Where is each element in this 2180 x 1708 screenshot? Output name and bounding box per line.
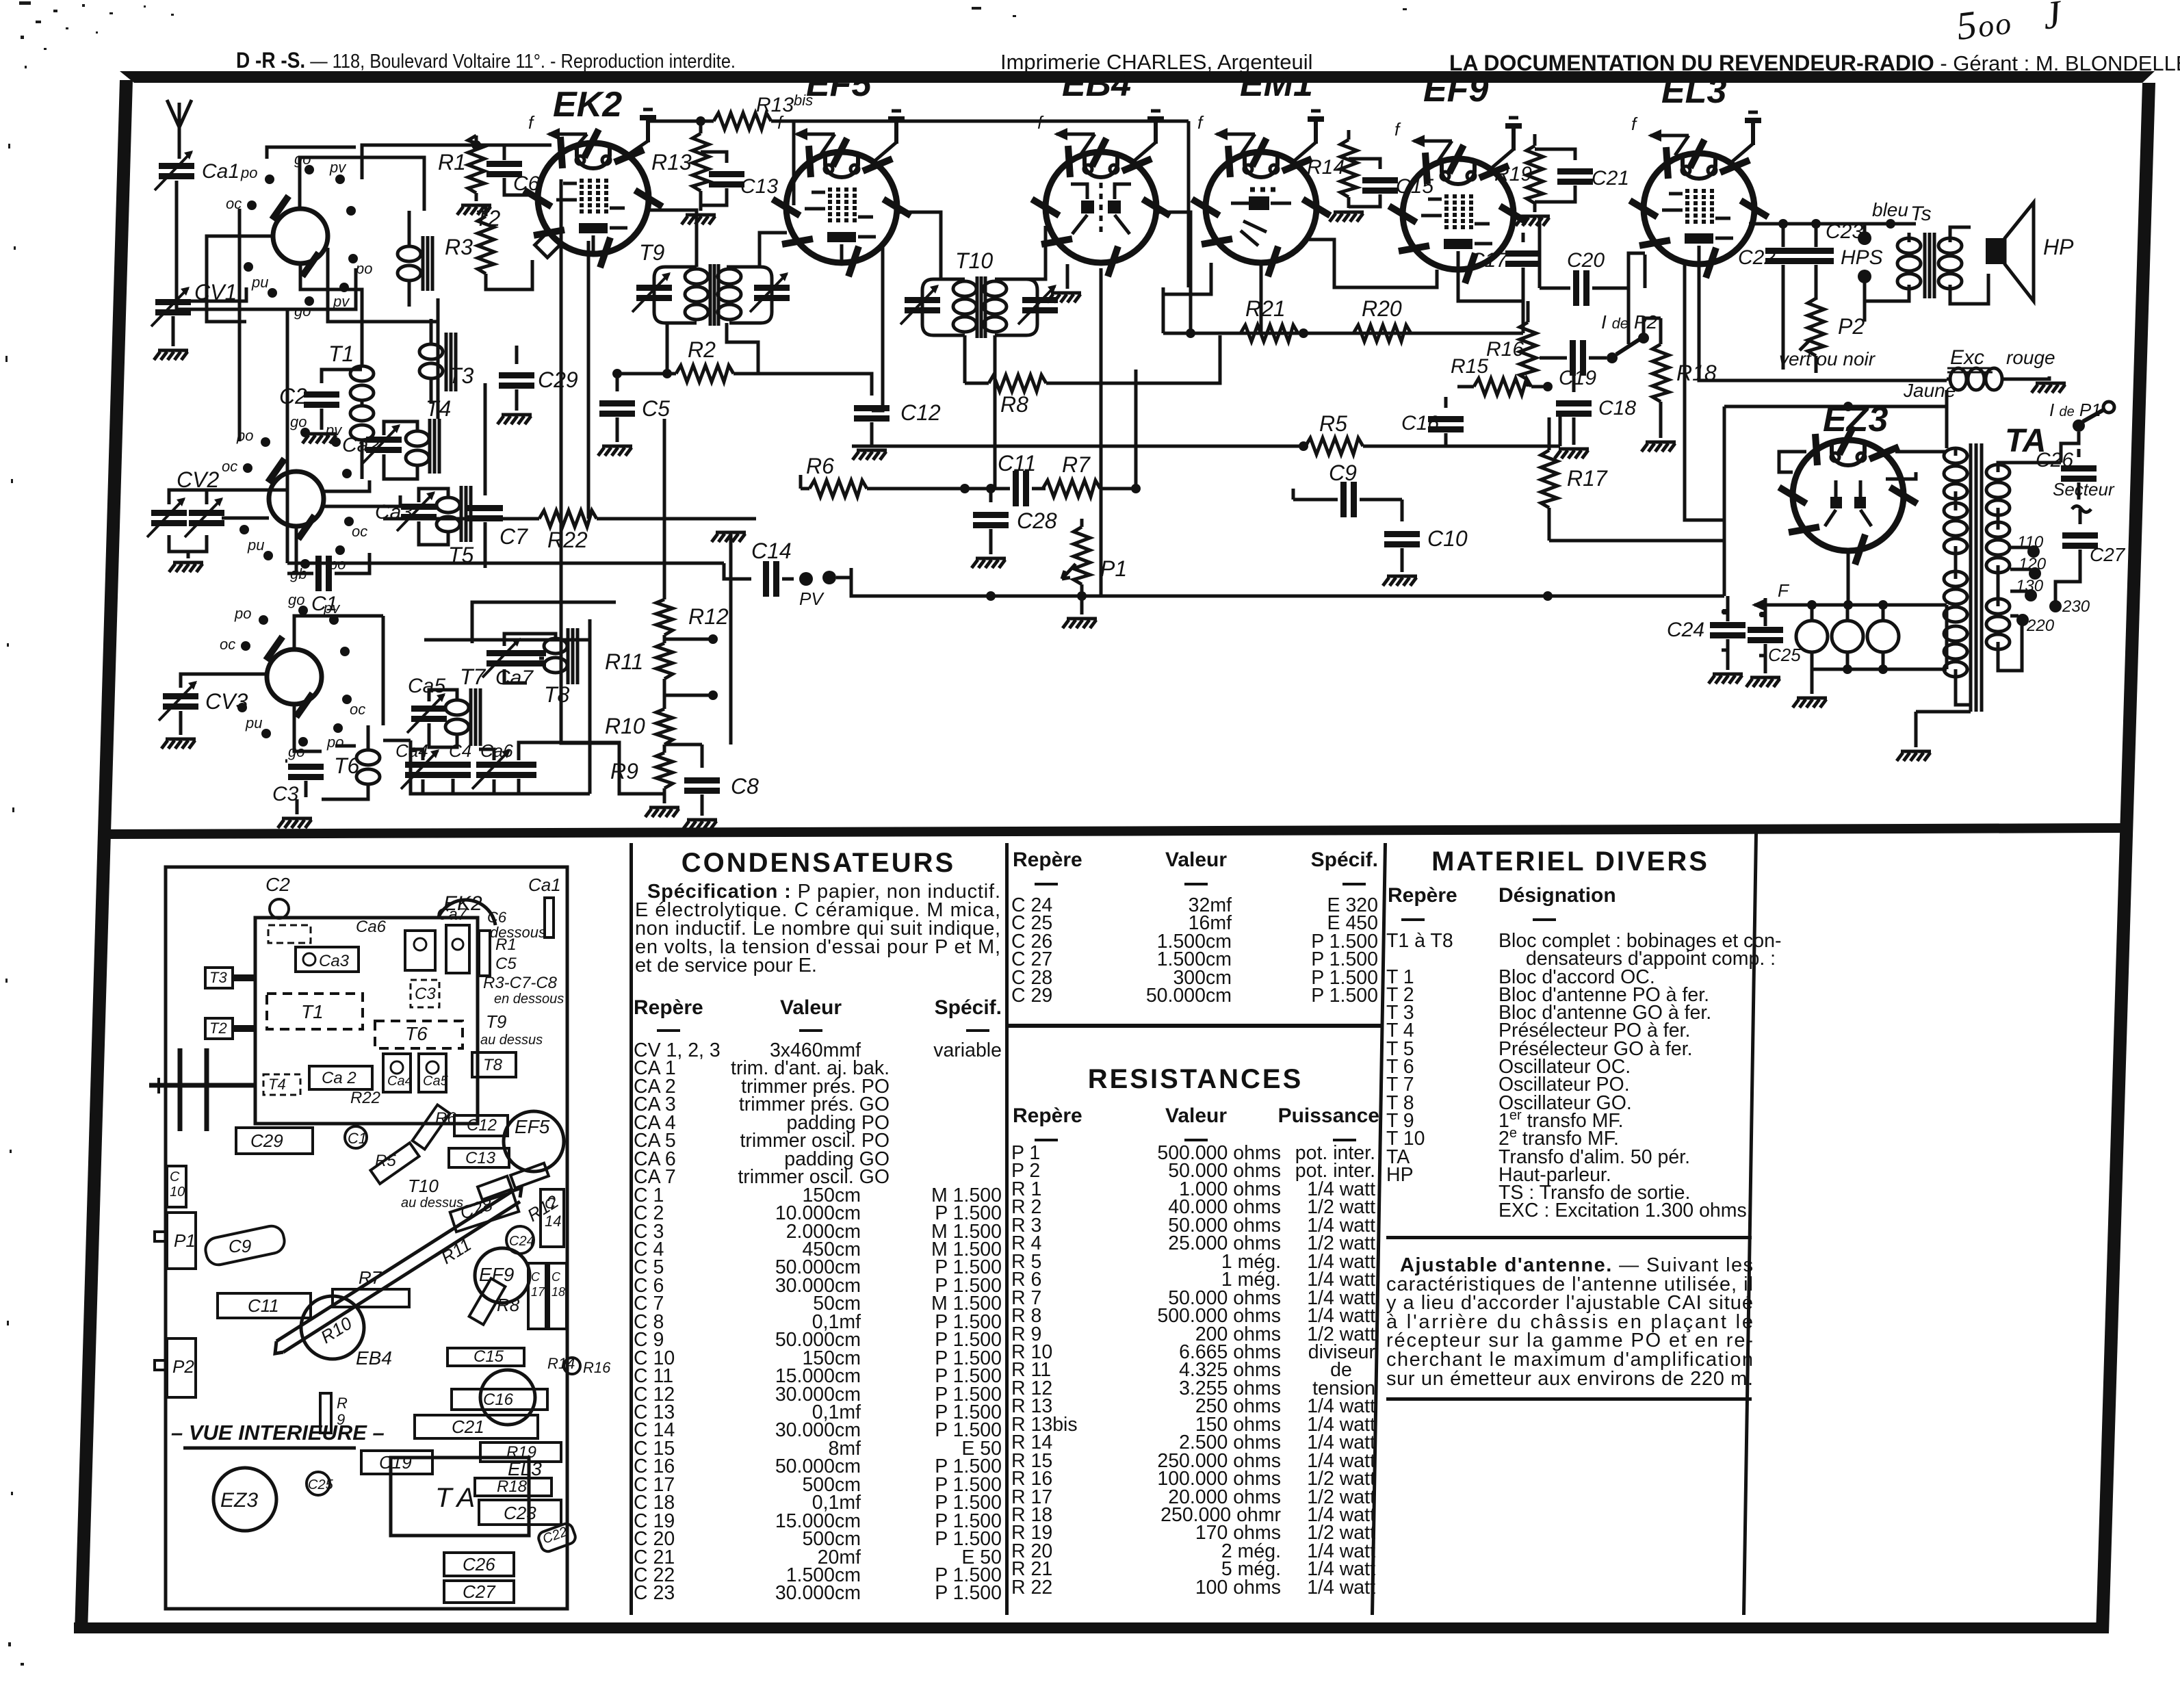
svg-text:R7: R7 — [1062, 452, 1091, 477]
svg-text:R11: R11 — [605, 649, 643, 674]
resistor R6 — [801, 475, 1010, 497]
svg-text:1/4 watt: 1/4 watt — [1307, 1577, 1375, 1599]
chassis box T3 — [205, 968, 255, 988]
resistor R1 — [468, 135, 484, 201]
chassis small R13 R14 — [478, 1163, 549, 1200]
wire S3 upper loop — [294, 616, 383, 751]
rule below ajustable — [1386, 1397, 1752, 1401]
grid bus wire EK2 — [452, 144, 552, 147]
page frame: bottom border bar — [74, 1622, 2108, 1633]
svg-text:C2: C2 — [279, 384, 307, 409]
svg-text:Ca 2: Ca 2 — [322, 1069, 356, 1087]
svg-text:P2: P2 — [1838, 314, 1865, 339]
svg-text:et de service pour E.: et de service pour E. — [635, 955, 817, 976]
svg-text:au dessus: au dessus — [480, 1033, 543, 1048]
svg-text:R22: R22 — [350, 1089, 380, 1107]
svg-text:CV3: CV3 — [205, 689, 248, 714]
capacitor Ca5 — [407, 693, 447, 733]
title VUE INTERIEURE — [171, 1421, 385, 1448]
svg-text:pv: pv — [323, 599, 341, 617]
filament arrow EF5 — [794, 128, 835, 154]
svg-text:C24: C24 — [509, 1234, 534, 1249]
capacitor C16 — [1428, 397, 1464, 446]
band switch S2 labels — [222, 413, 367, 582]
chassis node C25 — [307, 1472, 330, 1495]
tube EF9 — [1389, 145, 1527, 283]
top cap EK2 — [624, 109, 656, 157]
svg-text:EZ3: EZ3 — [220, 1489, 258, 1512]
chassis view outer box — [166, 867, 567, 1609]
top cap EL3 — [1729, 112, 1761, 164]
svg-text:C14: C14 — [751, 539, 792, 563]
table column rule 3 — [1371, 843, 1387, 1615]
chassis tube EL3 — [480, 1370, 535, 1425]
tube EM1 — [1192, 138, 1330, 276]
svg-text:230: 230 — [2062, 597, 2090, 616]
svg-text:C22: C22 — [1738, 246, 1776, 269]
capacitor C24 — [1710, 596, 1746, 670]
wire left trunk — [238, 209, 242, 441]
svg-text:Repère: Repère — [1013, 849, 1082, 871]
lamp L1 — [1796, 605, 1828, 652]
svg-text:EF9: EF9 — [1423, 70, 1488, 109]
svg-text:TA: TA — [435, 1483, 482, 1513]
excitation coil EXC — [1947, 368, 2049, 390]
svg-text:Ca2: Ca2 — [342, 434, 380, 456]
chassis box C12 — [454, 1115, 508, 1136]
tube EL3 — [1630, 140, 1768, 278]
chassis resistor R9 — [320, 1393, 331, 1433]
transformer T1 — [350, 342, 374, 479]
svg-text:en dessous: en dessous — [494, 992, 564, 1007]
resistor R2 — [612, 365, 872, 396]
band switch S1 contact dots — [244, 165, 358, 306]
label Exc — [1947, 346, 1993, 372]
wire switch to grid line — [362, 145, 452, 179]
wire filament line lamps — [1793, 551, 1947, 669]
wire cathode line EL3 — [1699, 266, 1947, 380]
svg-text:C11: C11 — [998, 451, 1036, 476]
chassis box T2 — [205, 1018, 255, 1039]
resistor R9 — [656, 745, 673, 799]
svg-text:EL3: EL3 — [508, 1458, 542, 1479]
node HPS — [1858, 224, 1871, 322]
table RESISTANCES header — [1013, 1104, 1379, 1127]
wire CV1 to switch — [189, 287, 246, 301]
table RESISTANCES rows — [1011, 1142, 1375, 1599]
capacitor C9 — [1293, 482, 1402, 517]
svg-text:10: 10 — [170, 1185, 185, 1200]
svg-text:C19: C19 — [379, 1452, 412, 1473]
wire jaune line — [1724, 390, 1947, 596]
wire lamp bottoms — [1812, 652, 1947, 674]
resistor R18 — [1644, 318, 1669, 438]
wire EL3 plate line — [1749, 219, 1916, 229]
ground under C24 — [1709, 674, 1743, 684]
svg-text:C7: C7 — [499, 524, 528, 549]
filament arrow EB4 — [1054, 128, 1095, 154]
svg-text:C27: C27 — [463, 1581, 496, 1602]
svg-text:EXC : Excitation 1.300 ohms.: EXC : Excitation 1.300 ohms. — [1498, 1200, 1752, 1221]
svg-text:C18: C18 — [1598, 397, 1636, 419]
svg-text:f: f — [528, 112, 535, 133]
capacitor C15 — [1349, 159, 1398, 207]
svg-text:f: f — [1631, 114, 1638, 134]
chassis box R18 — [475, 1478, 552, 1496]
scan noise speckles — [5, 1, 1407, 1666]
svg-text:Repère: Repère — [1388, 884, 1457, 907]
resistor R11 — [656, 635, 673, 679]
chassis label C17 18 — [531, 1270, 565, 1299]
svg-text:R2: R2 — [688, 337, 716, 362]
transformer T10 — [900, 226, 1058, 489]
tube EB4 — [1032, 138, 1170, 276]
svg-text:f: f — [1197, 112, 1204, 133]
svg-text:oc: oc — [352, 523, 367, 540]
svg-text:R12: R12 — [688, 604, 729, 629]
lamp L2 — [1832, 605, 1863, 652]
svg-text:T9: T9 — [486, 1011, 506, 1032]
tube EK2 — [524, 129, 662, 268]
svg-text:R20: R20 — [1362, 296, 1402, 321]
svg-text:T2: T2 — [209, 1020, 227, 1037]
svg-text:HP: HP — [1386, 1164, 1414, 1186]
chassis box C16 — [452, 1389, 547, 1410]
ground under C8 — [683, 820, 717, 829]
svg-text:Ca5: Ca5 — [408, 675, 445, 697]
wire R7 vertical — [1134, 370, 1138, 489]
capacitor C19 — [1540, 340, 1607, 376]
capacitor C3 — [285, 761, 324, 797]
wire EZ3 plates to TA — [1779, 452, 1947, 479]
chassis resistor R6 — [413, 1104, 450, 1149]
capacitor C21 — [1535, 149, 1593, 202]
wire oscillator block bottom — [411, 740, 590, 794]
wire EM1 grid link — [1163, 263, 1211, 294]
svg-text:30.000cm: 30.000cm — [775, 1582, 861, 1604]
svg-text:po: po — [355, 260, 372, 277]
wire antenna to band switch — [177, 181, 356, 309]
chassis tube EF5 — [504, 1111, 564, 1172]
svg-text:C16: C16 — [1401, 412, 1439, 435]
svg-text:Ca1: Ca1 — [202, 160, 239, 183]
svg-text:T9: T9 — [639, 240, 665, 265]
filament arrow EZ3 — [1752, 599, 1793, 611]
wire left AVC vertical — [286, 309, 289, 563]
chassis trimmer pair Ca4 Ca5 — [383, 1054, 446, 1092]
svg-text:Valeur: Valeur — [780, 996, 842, 1019]
top cap EF9 — [1490, 118, 1522, 170]
svg-text:120: 120 — [2019, 555, 2047, 573]
svg-text:T3: T3 — [448, 363, 474, 388]
resistor R3 — [478, 204, 532, 289]
svg-text:R6: R6 — [806, 454, 834, 478]
svg-text:C16: C16 — [483, 1390, 514, 1409]
resistor R5 — [852, 411, 1560, 454]
svg-text:Secteur: Secteur — [2053, 479, 2115, 500]
transformer T2 — [398, 211, 432, 307]
svg-text:R5: R5 — [375, 1152, 396, 1170]
resistor R13bis — [650, 113, 1189, 287]
svg-text:Valeur: Valeur — [1165, 849, 1227, 871]
transformer T4 — [384, 419, 439, 479]
band switch S2 contact dots — [239, 428, 354, 569]
ground under R13 — [682, 215, 716, 224]
capacitor C2 — [304, 370, 362, 430]
svg-text:po: po — [234, 605, 251, 622]
ground under CV2 — [169, 552, 203, 572]
svg-text:C9: C9 — [1329, 461, 1357, 485]
ground under C18 — [1555, 449, 1589, 458]
svg-text:HP: HP — [2043, 235, 2074, 259]
chassis resistor R5 — [370, 1143, 419, 1184]
svg-text:LA DOCUMENTATION DU REVENDE: LA DOCUMENTATION DU REVENDEUR-RADIO - Gé… — [1449, 51, 2180, 75]
wire EF5 grid drop — [792, 121, 796, 205]
chassis label R14 R16 — [547, 1355, 611, 1376]
svg-text:R3: R3 — [445, 235, 473, 259]
svg-text:R3-C7-C8: R3-C7-C8 — [483, 974, 558, 992]
svg-text:go: go — [294, 302, 311, 320]
capacitor C18 — [1556, 373, 1592, 445]
svg-text:bleu: bleu — [1872, 199, 1908, 220]
wire AVC bus upper — [287, 563, 751, 579]
band switch S1 labels — [226, 151, 372, 320]
svg-text:17: 17 — [531, 1285, 545, 1299]
svg-text:100 ohms: 100 ohms — [1195, 1577, 1281, 1599]
svg-text:R17: R17 — [1567, 466, 1608, 491]
wire centre trunk — [712, 532, 746, 745]
wire grid return — [267, 147, 356, 159]
wire EF9 cathode — [1458, 270, 1528, 322]
svg-text:pv: pv — [333, 293, 350, 310]
svg-text:C6: C6 — [513, 172, 540, 195]
svg-text:C25: C25 — [308, 1477, 334, 1492]
rule above ajustable — [1386, 1236, 1752, 1239]
svg-text:Ca4: Ca4 — [387, 1074, 413, 1089]
wire R chain taps — [664, 634, 718, 700]
svg-text:C19: C19 — [1559, 367, 1596, 389]
chassis label R9 — [337, 1395, 348, 1428]
capacitor Ca3 — [397, 491, 437, 531]
filament arrow EF9 — [1411, 135, 1452, 161]
band switch S2 — [265, 457, 324, 541]
table C24 rows — [1011, 894, 1378, 1007]
wire S2 bottom to C1 — [295, 526, 298, 573]
capacitor C6 — [486, 145, 539, 195]
svg-text:C 23: C 23 — [634, 1582, 675, 1604]
svg-text:C20: C20 — [1567, 249, 1605, 272]
top cap EM1 — [1292, 111, 1324, 163]
svg-text:R1: R1 — [495, 935, 517, 954]
svg-text:18: 18 — [552, 1285, 565, 1299]
ground under CV1 — [154, 316, 188, 360]
ground under C12 — [853, 450, 887, 460]
svg-text:T4: T4 — [268, 1076, 286, 1093]
svg-text:variable: variable — [933, 1039, 1002, 1061]
capacitor C12 — [854, 405, 890, 446]
chassis box Ca3 — [296, 947, 359, 972]
transformer TA secondary coils — [1986, 463, 2022, 671]
svg-text:T1: T1 — [301, 1001, 324, 1022]
wire CV2 box — [169, 490, 287, 552]
chassis box C29 — [236, 1128, 313, 1154]
svg-text:R8: R8 — [1000, 392, 1028, 417]
chassis box C23 — [479, 1500, 561, 1525]
svg-text:oc: oc — [350, 701, 365, 718]
svg-text:C23: C23 — [1826, 220, 1863, 243]
chassis box C21 — [415, 1415, 538, 1438]
svg-text:R13bis: R13bis — [756, 92, 813, 116]
svg-text:go: go — [288, 591, 304, 608]
capacitor C26 — [2061, 449, 2097, 500]
wire S3 link — [382, 616, 385, 725]
table MATERIEL rows — [1386, 930, 1782, 1221]
svg-text:I de P2: I de P2 — [1601, 311, 1658, 333]
wire switch to T1 — [300, 263, 362, 342]
wire EF5 screen drop — [872, 246, 883, 411]
wire oscillator to R9 bus — [519, 742, 664, 794]
svg-text:go: go — [290, 413, 307, 430]
chassis box C15 — [447, 1348, 524, 1366]
table column rule 2 — [1005, 843, 1009, 1615]
potentiometer P2 — [1800, 298, 1824, 373]
transformer T9 — [632, 233, 790, 378]
transformer T5 — [419, 486, 471, 545]
svg-text:EF9: EF9 — [479, 1264, 514, 1285]
ground under R9 — [645, 798, 679, 817]
svg-text:R: R — [337, 1395, 348, 1412]
svg-text:Ca5: Ca5 — [423, 1074, 449, 1089]
capacitor C28 — [973, 484, 1009, 554]
ground under C10 — [1383, 576, 1417, 586]
svg-text:C5: C5 — [495, 955, 517, 973]
wire S2 to T4 T5 — [324, 480, 400, 506]
svg-text:PV: PV — [799, 588, 825, 609]
wire CV3 to S3 — [181, 674, 267, 688]
capacitor C13 — [701, 152, 744, 205]
capacitor CV2b — [185, 497, 224, 537]
capacitor C14 — [763, 561, 794, 597]
chassis coil block box — [255, 918, 478, 1124]
transformer T7 — [429, 688, 480, 747]
chassis box C10 — [167, 1166, 186, 1207]
svg-text:C26: C26 — [463, 1554, 495, 1575]
wire EL3 screen vertical — [1685, 260, 1724, 520]
svg-text:sur un émetteur aux environs d: sur un émetteur aux environs de 220 m. — [1386, 1368, 1753, 1390]
svg-text:po: po — [326, 734, 343, 751]
svg-text:RESISTANCES: RESISTANCES — [1088, 1064, 1303, 1094]
transformer T3 — [419, 319, 456, 404]
chassis circle R16 — [564, 1358, 580, 1374]
svg-text:EF5: EF5 — [806, 64, 872, 104]
transformer TA core — [1971, 443, 1982, 712]
chassis pot P1 — [155, 1213, 196, 1269]
svg-text:Exc: Exc — [1950, 346, 1984, 369]
svg-text:C10: C10 — [1427, 526, 1468, 551]
capacitor C8 — [664, 745, 720, 816]
band switch S3 contact dots — [237, 606, 352, 747]
svg-text:C2: C2 — [265, 874, 290, 895]
tube EZ3 — [1779, 426, 1917, 565]
svg-text:T8: T8 — [544, 682, 570, 707]
svg-text:C3: C3 — [272, 783, 299, 805]
capacitor CV2a — [147, 497, 187, 537]
svg-text:Puissance: Puissance — [1278, 1104, 1379, 1127]
svg-text:R10: R10 — [317, 1312, 356, 1347]
svg-text:EZ3: EZ3 — [1823, 400, 1888, 439]
table CONDENSATEURS intro — [635, 881, 1000, 976]
wire EB4 plate right — [1101, 212, 1261, 596]
band switch S1 — [270, 194, 328, 279]
svg-text:R9: R9 — [610, 759, 638, 784]
chassis resistor R8 — [469, 1278, 506, 1324]
svg-text:T1: T1 — [328, 341, 354, 366]
label Secteur — [2053, 479, 2115, 513]
capacitor Ca1 — [155, 151, 194, 190]
svg-text:Ca6: Ca6 — [356, 918, 387, 936]
ground under lamps — [1793, 669, 1827, 708]
chassis pot P2 — [155, 1338, 196, 1397]
chassis tube EZ3 — [213, 1468, 276, 1531]
TA taps — [2010, 545, 2080, 626]
chassis box T6 dashed — [375, 1021, 463, 1048]
capacitor C27 — [2062, 509, 2098, 565]
svg-text:C: C — [531, 1270, 541, 1284]
ground under C29 — [497, 415, 532, 424]
svg-text:Ca1: Ca1 — [528, 875, 561, 895]
svg-text:Spécif.: Spécif. — [1311, 849, 1378, 871]
svg-text:pu: pu — [245, 714, 262, 732]
svg-text:T6: T6 — [405, 1023, 428, 1044]
svg-text:C22: C22 — [541, 1524, 569, 1547]
svg-text:T8: T8 — [483, 1056, 503, 1074]
chassis tube EF9 — [475, 1248, 530, 1303]
capacitor C5 — [599, 374, 635, 442]
wire switch loops upper — [300, 157, 424, 211]
svg-text:C28: C28 — [1017, 508, 1057, 533]
svg-text:MATERIEL DIVERS: MATERIEL DIVERS — [1431, 846, 1709, 877]
page frame: left border bar — [75, 80, 133, 1633]
svg-text:C23: C23 — [504, 1503, 536, 1523]
svg-text:T1 à T8: T1 à T8 — [1386, 930, 1453, 952]
wire EF9 plate — [1514, 216, 1540, 270]
wire oscillator block top — [383, 602, 616, 794]
chassis box R19 — [480, 1442, 561, 1462]
svg-text:C24: C24 — [1667, 619, 1704, 641]
svg-text:pv: pv — [325, 422, 343, 439]
svg-text:R 22: R 22 — [1011, 1577, 1052, 1599]
wire EL3 grid coupling — [1628, 253, 1645, 288]
filament arrow EM1 — [1214, 128, 1255, 154]
svg-text:C27: C27 — [2090, 544, 2126, 565]
svg-text:I de P1: I de P1 — [2049, 400, 2101, 420]
wire R21 R20 bus — [1163, 287, 1523, 338]
wire switch lower loop — [328, 248, 438, 322]
svg-text:Valeur: Valeur — [1165, 1104, 1227, 1127]
svg-text:– VUE INTERIEURE –: – VUE INTERIEURE – — [171, 1421, 385, 1445]
svg-text:C1: C1 — [348, 1130, 367, 1147]
svg-text:T10: T10 — [955, 248, 993, 273]
svg-text:C26: C26 — [2036, 449, 2073, 471]
chassis box C13 — [449, 1148, 509, 1167]
svg-text:f: f — [1394, 119, 1401, 140]
wire AVC bus long — [851, 579, 1724, 601]
svg-text:C11: C11 — [248, 1295, 279, 1316]
svg-text:CONDENSATEURS: CONDENSATEURS — [682, 848, 956, 878]
svg-text:R21: R21 — [1245, 296, 1286, 321]
ground EXC — [2032, 383, 2066, 393]
svg-text:oc: oc — [222, 458, 237, 475]
